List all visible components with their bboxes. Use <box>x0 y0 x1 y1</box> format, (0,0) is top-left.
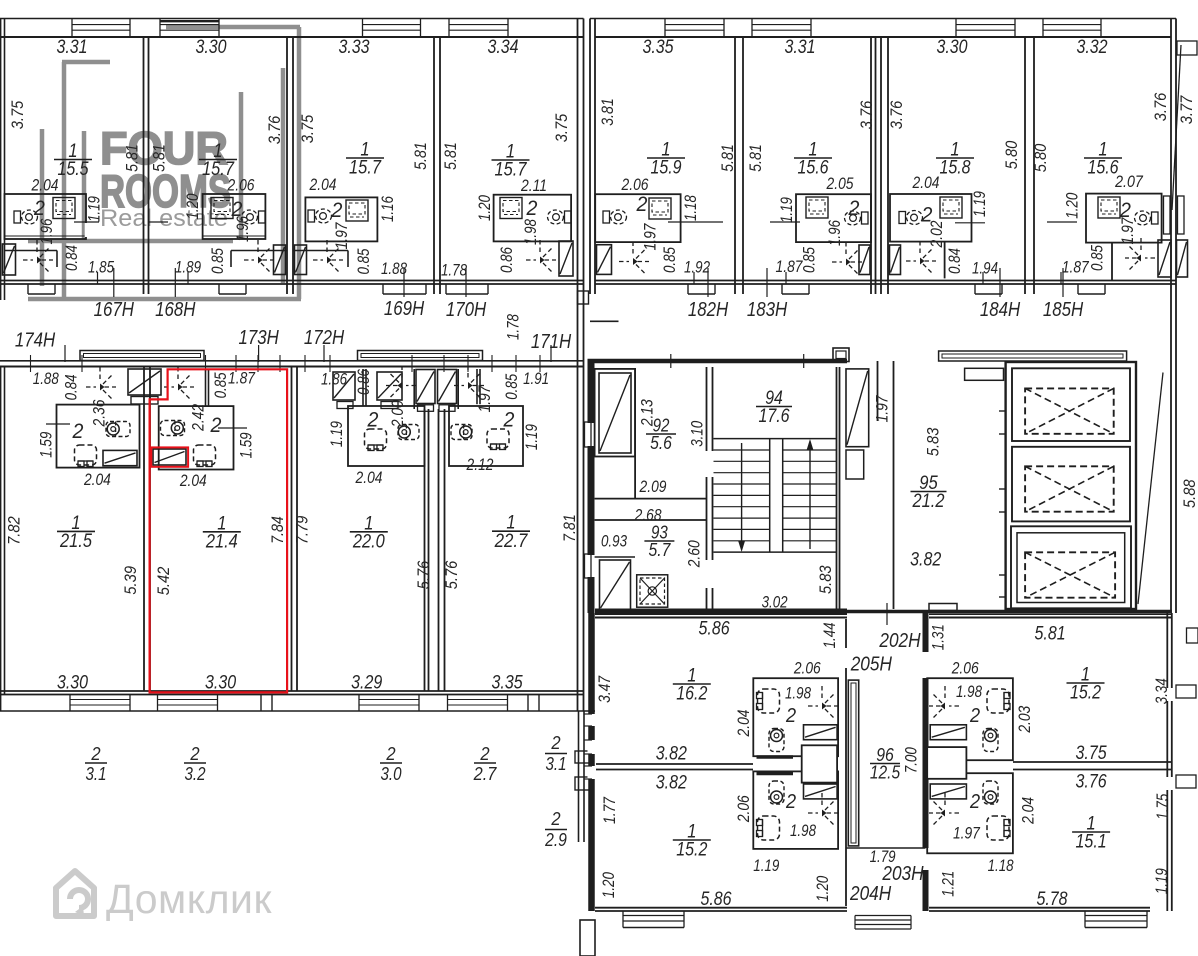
svg-text:1.98: 1.98 <box>522 218 540 245</box>
svg-text:5.81: 5.81 <box>746 144 765 172</box>
svg-text:21.2: 21.2 <box>912 491 945 512</box>
svg-text:1.78: 1.78 <box>504 313 522 340</box>
svg-text:1.20: 1.20 <box>814 875 832 902</box>
svg-text:3.76: 3.76 <box>1076 772 1107 793</box>
svg-text:1.96: 1.96 <box>234 215 252 242</box>
svg-text:3.82: 3.82 <box>656 772 687 793</box>
svg-text:185Н: 185Н <box>1043 299 1084 321</box>
svg-text:1.98: 1.98 <box>790 822 817 840</box>
svg-text:2: 2 <box>550 733 560 753</box>
svg-text:2.06: 2.06 <box>951 660 979 678</box>
svg-text:0.86: 0.86 <box>498 246 516 273</box>
svg-text:5.39: 5.39 <box>121 566 140 595</box>
svg-text:7.79: 7.79 <box>293 515 312 544</box>
svg-text:2: 2 <box>550 809 560 829</box>
svg-text:1.77: 1.77 <box>601 796 619 824</box>
svg-text:1.87: 1.87 <box>776 258 804 276</box>
svg-text:3.10: 3.10 <box>689 420 707 447</box>
svg-text:2.06: 2.06 <box>227 176 255 194</box>
svg-text:3.31: 3.31 <box>784 37 815 58</box>
svg-text:183Н: 183Н <box>747 299 788 321</box>
svg-text:2.06: 2.06 <box>735 795 753 823</box>
svg-text:0.85: 0.85 <box>209 247 227 274</box>
svg-text:2: 2 <box>526 197 538 220</box>
svg-text:1.75: 1.75 <box>1154 793 1172 820</box>
svg-text:1.97: 1.97 <box>333 222 351 250</box>
svg-text:2.06: 2.06 <box>793 660 821 678</box>
svg-text:Домклик: Домклик <box>106 876 272 922</box>
svg-text:3.35: 3.35 <box>642 37 673 58</box>
svg-text:2: 2 <box>72 420 84 443</box>
svg-text:5.42: 5.42 <box>154 566 173 595</box>
svg-text:5.6: 5.6 <box>650 433 673 453</box>
svg-text:202Н: 202Н <box>879 630 922 652</box>
svg-text:3.75: 3.75 <box>1076 743 1107 764</box>
svg-text:5.80: 5.80 <box>1031 143 1050 172</box>
svg-text:3.75: 3.75 <box>8 100 27 129</box>
svg-text:1.85: 1.85 <box>88 258 115 276</box>
svg-text:0.84: 0.84 <box>63 245 81 271</box>
svg-text:1.96: 1.96 <box>826 219 844 246</box>
svg-text:1.31: 1.31 <box>930 624 948 650</box>
svg-text:0.85: 0.85 <box>1088 244 1106 271</box>
svg-text:0.84: 0.84 <box>63 374 81 400</box>
svg-text:1.97: 1.97 <box>476 385 494 413</box>
svg-text:5.81: 5.81 <box>411 142 430 170</box>
svg-text:22.0: 22.0 <box>352 531 385 552</box>
svg-text:3.76: 3.76 <box>887 100 906 129</box>
svg-text:5.83: 5.83 <box>923 427 942 456</box>
svg-text:15.6: 15.6 <box>797 158 828 179</box>
svg-text:2.04: 2.04 <box>912 174 940 192</box>
svg-text:2.04: 2.04 <box>355 469 383 487</box>
svg-text:205Н: 205Н <box>850 653 893 675</box>
svg-text:5.78: 5.78 <box>1036 889 1067 910</box>
svg-text:1.19: 1.19 <box>85 196 103 222</box>
svg-text:15.5: 15.5 <box>57 159 88 180</box>
svg-text:3.77: 3.77 <box>1177 95 1196 124</box>
svg-text:3.33: 3.33 <box>338 37 369 58</box>
svg-text:2: 2 <box>969 705 980 727</box>
svg-text:0.85: 0.85 <box>801 246 819 273</box>
svg-text:203Н: 203Н <box>882 863 925 885</box>
svg-text:2.07: 2.07 <box>1114 173 1143 191</box>
svg-text:15.1: 15.1 <box>1076 832 1107 853</box>
svg-text:3.81: 3.81 <box>598 98 617 126</box>
svg-text:1.98: 1.98 <box>785 684 812 702</box>
svg-text:2: 2 <box>848 197 860 220</box>
svg-text:2: 2 <box>33 197 45 220</box>
svg-text:5.81: 5.81 <box>1035 624 1066 645</box>
svg-text:15.8: 15.8 <box>939 158 970 179</box>
svg-text:3.35: 3.35 <box>492 672 523 693</box>
svg-text:2: 2 <box>969 791 980 813</box>
svg-text:7.81: 7.81 <box>560 514 579 542</box>
svg-text:2.09: 2.09 <box>639 478 667 496</box>
svg-text:1.91: 1.91 <box>523 370 549 388</box>
svg-text:184Н: 184Н <box>980 299 1021 321</box>
svg-text:15.2: 15.2 <box>1070 683 1101 704</box>
svg-text:22.7: 22.7 <box>494 531 529 552</box>
svg-text:5.80: 5.80 <box>1002 140 1021 169</box>
svg-text:1.87: 1.87 <box>228 369 256 387</box>
svg-text:1.21: 1.21 <box>940 871 958 897</box>
svg-text:15.2: 15.2 <box>676 840 707 861</box>
svg-text:1.96: 1.96 <box>38 218 56 245</box>
svg-text:3.34: 3.34 <box>1153 678 1171 704</box>
svg-text:3.34: 3.34 <box>487 37 518 58</box>
svg-text:1.19: 1.19 <box>971 191 989 217</box>
svg-text:7.84: 7.84 <box>268 516 287 544</box>
svg-text:2: 2 <box>636 193 648 216</box>
svg-text:2.11: 2.11 <box>520 177 547 195</box>
svg-text:3.82: 3.82 <box>656 744 687 765</box>
svg-text:2.60: 2.60 <box>685 540 703 568</box>
svg-text:2.42: 2.42 <box>189 404 207 432</box>
svg-text:3.75: 3.75 <box>552 113 571 142</box>
svg-text:0.85: 0.85 <box>355 248 373 275</box>
svg-text:1.97: 1.97 <box>874 395 892 423</box>
svg-text:3.30: 3.30 <box>205 672 236 693</box>
svg-text:1.92: 1.92 <box>684 259 710 277</box>
svg-text:2.06: 2.06 <box>621 176 649 194</box>
svg-text:5.86: 5.86 <box>700 889 731 910</box>
svg-text:1.20: 1.20 <box>184 193 202 220</box>
svg-text:3.2: 3.2 <box>185 764 206 784</box>
svg-text:174Н: 174Н <box>15 330 56 352</box>
svg-text:5.81: 5.81 <box>150 144 169 172</box>
svg-text:1.94: 1.94 <box>972 259 998 277</box>
svg-text:3.1: 3.1 <box>86 764 107 784</box>
svg-text:15.9: 15.9 <box>650 158 681 179</box>
svg-text:0.85: 0.85 <box>503 373 521 400</box>
svg-text:2.12: 2.12 <box>466 456 494 474</box>
svg-text:1.19: 1.19 <box>523 424 541 450</box>
svg-text:3.0: 3.0 <box>381 764 402 784</box>
svg-text:2.7: 2.7 <box>473 764 497 784</box>
svg-text:3.47: 3.47 <box>596 675 614 703</box>
svg-text:5.81: 5.81 <box>441 142 460 170</box>
svg-text:3.31: 3.31 <box>56 37 87 58</box>
svg-text:2: 2 <box>210 414 222 437</box>
svg-text:2: 2 <box>479 744 489 764</box>
svg-text:2.36: 2.36 <box>90 399 108 427</box>
svg-text:1.20: 1.20 <box>1063 192 1081 219</box>
svg-text:3.76: 3.76 <box>265 115 284 144</box>
svg-text:16.2: 16.2 <box>676 684 707 705</box>
svg-text:1.20: 1.20 <box>476 194 494 221</box>
svg-text:2.04: 2.04 <box>309 176 337 194</box>
svg-text:12.5: 12.5 <box>870 762 901 782</box>
svg-text:2: 2 <box>90 744 100 764</box>
svg-text:168Н: 168Н <box>155 299 196 321</box>
svg-text:3.30: 3.30 <box>936 37 967 58</box>
svg-text:3.29: 3.29 <box>351 672 382 693</box>
svg-text:2.04: 2.04 <box>179 472 207 490</box>
svg-text:1.59: 1.59 <box>38 432 56 458</box>
svg-text:3.75: 3.75 <box>298 114 317 143</box>
svg-text:0.93: 0.93 <box>601 533 628 551</box>
svg-text:170Н: 170Н <box>446 299 487 321</box>
svg-text:1.19: 1.19 <box>753 857 779 875</box>
svg-text:2.00: 2.00 <box>389 400 407 428</box>
svg-text:0.84: 0.84 <box>946 248 964 274</box>
svg-text:3.76: 3.76 <box>1151 92 1170 121</box>
svg-text:1.98: 1.98 <box>956 683 983 701</box>
svg-text:5.86: 5.86 <box>699 619 730 640</box>
svg-text:1.97: 1.97 <box>641 223 659 251</box>
svg-text:2: 2 <box>785 705 796 727</box>
svg-text:2: 2 <box>189 744 199 764</box>
svg-text:5.76: 5.76 <box>414 560 433 589</box>
svg-text:204Н: 204Н <box>849 883 892 905</box>
svg-text:1.97: 1.97 <box>953 825 981 843</box>
svg-text:1.19: 1.19 <box>1153 868 1171 894</box>
svg-text:3.1: 3.1 <box>546 754 567 774</box>
svg-text:169Н: 169Н <box>384 298 425 320</box>
svg-text:1.16: 1.16 <box>379 195 397 222</box>
svg-text:0.86: 0.86 <box>355 368 373 395</box>
svg-text:3.02: 3.02 <box>762 594 788 612</box>
svg-text:2: 2 <box>331 199 343 222</box>
svg-text:Real estate: Real estate <box>100 205 228 232</box>
svg-text:1.97: 1.97 <box>1119 217 1137 245</box>
svg-text:5.7: 5.7 <box>649 540 672 560</box>
svg-text:5.88: 5.88 <box>1180 479 1198 508</box>
svg-text:2.04: 2.04 <box>31 176 59 194</box>
svg-text:2: 2 <box>503 409 515 432</box>
svg-text:1.86: 1.86 <box>321 370 348 388</box>
svg-text:3.76: 3.76 <box>857 100 876 129</box>
svg-text:182Н: 182Н <box>688 299 729 321</box>
svg-text:2.03: 2.03 <box>1016 705 1034 733</box>
svg-text:1.18: 1.18 <box>988 857 1015 875</box>
svg-text:5.83: 5.83 <box>816 565 835 594</box>
svg-text:2: 2 <box>385 744 395 764</box>
svg-text:5.81: 5.81 <box>718 144 737 172</box>
svg-text:1.78: 1.78 <box>441 261 468 279</box>
svg-text:1.19: 1.19 <box>778 197 796 223</box>
svg-text:7.82: 7.82 <box>5 516 24 545</box>
svg-text:1.19: 1.19 <box>328 421 346 447</box>
svg-text:2.05: 2.05 <box>826 175 854 193</box>
svg-text:167Н: 167Н <box>94 299 135 321</box>
svg-text:2.04: 2.04 <box>1020 797 1038 825</box>
svg-text:2.04: 2.04 <box>83 471 111 489</box>
svg-text:15.7: 15.7 <box>349 158 382 179</box>
svg-text:21.4: 21.4 <box>205 531 238 552</box>
svg-text:1.59: 1.59 <box>237 432 255 458</box>
svg-text:21.5: 21.5 <box>59 531 92 552</box>
svg-text:3.82: 3.82 <box>910 549 941 570</box>
svg-text:1.88: 1.88 <box>33 370 60 388</box>
svg-text:2.02: 2.02 <box>928 221 946 249</box>
svg-text:3.32: 3.32 <box>1076 37 1107 58</box>
svg-text:7.00: 7.00 <box>902 747 920 774</box>
svg-text:3.30: 3.30 <box>195 37 226 58</box>
svg-text:2.04: 2.04 <box>735 710 753 738</box>
svg-text:2: 2 <box>367 409 379 432</box>
svg-text:17.6: 17.6 <box>758 406 789 427</box>
svg-text:1.87: 1.87 <box>1062 258 1090 276</box>
svg-text:2.9: 2.9 <box>544 830 567 850</box>
svg-text:0.85: 0.85 <box>661 246 679 273</box>
svg-text:2: 2 <box>785 791 796 813</box>
svg-text:5.81: 5.81 <box>123 144 142 172</box>
svg-text:1.18: 1.18 <box>682 194 700 221</box>
svg-text:1.20: 1.20 <box>600 871 618 898</box>
svg-text:3.30: 3.30 <box>57 672 88 693</box>
svg-text:1.44: 1.44 <box>821 622 839 648</box>
svg-text:5.76: 5.76 <box>442 560 461 589</box>
